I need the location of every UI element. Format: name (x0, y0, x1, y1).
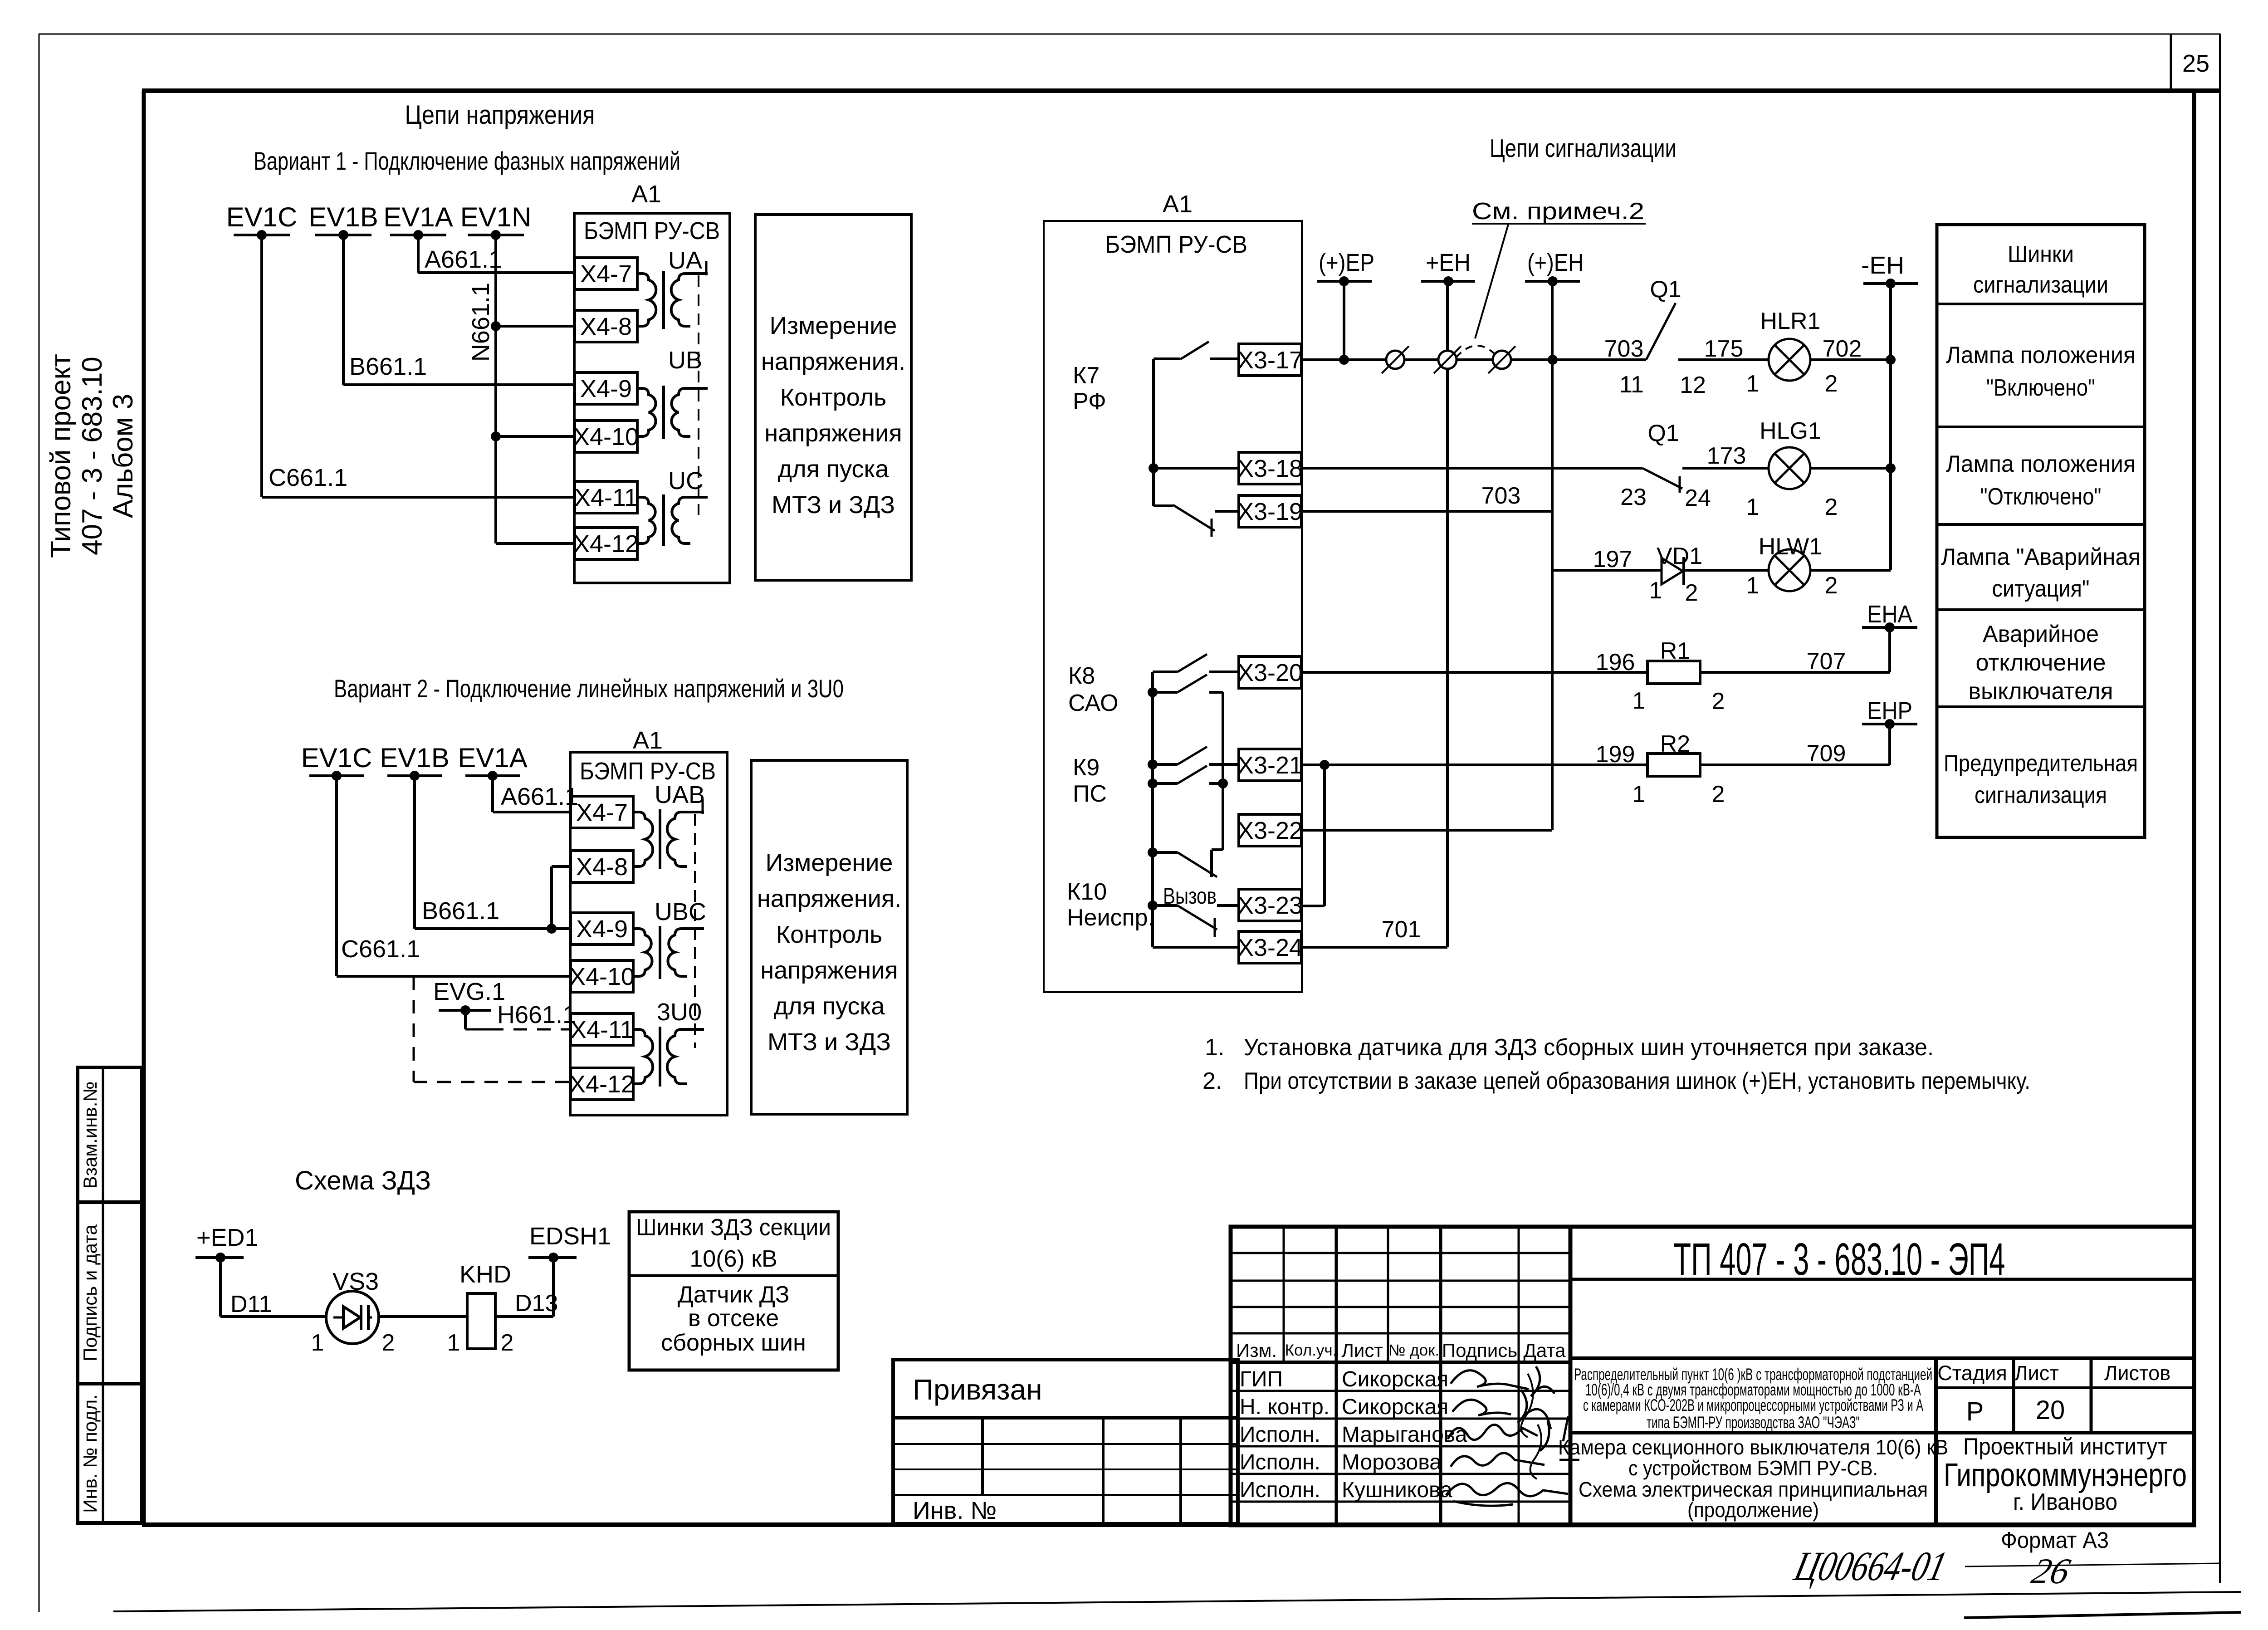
svg-text:HLR1: HLR1 (1760, 308, 1821, 334)
svg-text:2: 2 (1712, 688, 1725, 715)
svg-text:Х3-17: Х3-17 (1237, 347, 1303, 374)
svg-text:ТП 407 - 3 - 683.10 - ЭП4: ТП 407 - 3 - 683.10 - ЭП4 (1674, 1234, 2005, 1285)
svg-text:Сикорская: Сикорская (1342, 1367, 1448, 1391)
svg-text:Аварийное: Аварийное (1983, 621, 2099, 647)
svg-text:Гипрокоммунэнерго: Гипрокоммунэнерго (1944, 1457, 2187, 1493)
svg-text:типа БЭМП-РУ производства ЗАО: типа БЭМП-РУ производства ЗАО "ЧЭАЗ" (1647, 1413, 1860, 1432)
svg-text:UA: UA (668, 247, 702, 274)
svg-text:Х4-7: Х4-7 (580, 260, 632, 288)
svg-text:Х4-10: Х4-10 (569, 963, 635, 990)
svg-text:сборных шин: сборных шин (661, 1330, 806, 1356)
svg-text:в отсеке: в отсеке (688, 1305, 779, 1331)
svg-text:Шинки ЗДЗ секции: Шинки ЗДЗ секции (636, 1214, 831, 1241)
svg-text:сигнализации: сигнализации (1973, 272, 2108, 298)
svg-text:К8: К8 (1068, 663, 1095, 689)
svg-text:Х4-9: Х4-9 (580, 375, 632, 402)
svg-text:Подпись: Подпись (1442, 1340, 1517, 1361)
svg-text:Установка датчика для ЗДЗ сбор: Установка датчика для ЗДЗ сборных шин ут… (1244, 1034, 1934, 1061)
svg-text:+ED1: +ED1 (196, 1224, 259, 1251)
svg-text:Х3-23: Х3-23 (1237, 892, 1303, 919)
svg-text:Лампа "Аварийная: Лампа "Аварийная (1941, 544, 2141, 570)
svg-text:Кол.уч.: Кол.уч. (1285, 1341, 1337, 1359)
svg-text:Лист: Лист (2014, 1361, 2059, 1385)
svg-text:26: 26 (2028, 1551, 2074, 1591)
svg-text:для пуска: для пуска (774, 993, 885, 1020)
svg-text:Привязан: Привязан (913, 1373, 1042, 1406)
svg-text:1.: 1. (1205, 1034, 1224, 1061)
svg-text:Р: Р (1966, 1397, 1984, 1426)
svg-text:Схема ЗДЗ: Схема ЗДЗ (295, 1166, 431, 1195)
svg-text:2: 2 (1825, 573, 1838, 599)
svg-text:Н661.1: Н661.1 (497, 1001, 576, 1028)
svg-text:Н. контр.: Н. контр. (1240, 1395, 1330, 1419)
svg-text:отключение: отключение (1976, 650, 2106, 676)
svg-text:напряжения: напряжения (764, 420, 902, 447)
svg-text:Морозова: Морозова (1342, 1450, 1442, 1474)
svg-text:Х3-21: Х3-21 (1237, 752, 1303, 779)
svg-text:25: 25 (2182, 50, 2209, 77)
svg-text:Ц00664-01: Ц00664-01 (1789, 1543, 1951, 1589)
svg-text:ГИП: ГИП (1240, 1367, 1283, 1391)
svg-text:703: 703 (1481, 483, 1521, 509)
svg-text:Взам.инв.№: Взам.инв.№ (79, 1082, 101, 1189)
svg-text:Кушникова: Кушникова (1342, 1478, 1452, 1502)
svg-text:EV1A: EV1A (458, 743, 527, 773)
svg-text:2: 2 (382, 1330, 395, 1356)
svg-text:EV1C: EV1C (226, 202, 298, 232)
svg-text:К10: К10 (1067, 879, 1107, 905)
svg-text:1: 1 (1649, 578, 1662, 604)
svg-text:Цепи напряжения: Цепи напряжения (405, 100, 595, 130)
svg-text:Дата: Дата (1523, 1340, 1566, 1361)
svg-text:Х4-8: Х4-8 (576, 853, 628, 881)
svg-text:197: 197 (1593, 546, 1633, 573)
svg-text:выключателя: выключателя (1969, 678, 2113, 705)
svg-text:R1: R1 (1660, 638, 1690, 664)
svg-text:Инв. № подл.: Инв. № подл. (79, 1394, 101, 1513)
svg-text:2: 2 (1685, 580, 1698, 606)
svg-text:Сикорская: Сикорская (1342, 1395, 1448, 1419)
svg-text:N661.1: N661.1 (467, 283, 494, 362)
svg-text:БЭМП РУ-СВ: БЭМП РУ-СВ (584, 217, 720, 245)
svg-text:1: 1 (1746, 573, 1760, 599)
svg-text:EVG.1: EVG.1 (433, 978, 505, 1005)
svg-text:Исполн.: Исполн. (1240, 1450, 1320, 1474)
svg-text:МТЗ и ЗДЗ: МТЗ и ЗДЗ (772, 491, 895, 519)
svg-text:ПС: ПС (1073, 781, 1107, 807)
svg-text:С661.1: С661.1 (341, 935, 420, 963)
svg-text:Лампа положения: Лампа положения (1946, 342, 2136, 368)
svg-text:Проектный институт: Проектный институт (1963, 1434, 2167, 1460)
svg-text:Контроль: Контроль (776, 921, 883, 948)
svg-text:196: 196 (1596, 649, 1635, 675)
svg-text:A1: A1 (633, 727, 663, 754)
svg-text:К7: К7 (1073, 362, 1100, 389)
svg-text:707: 707 (1807, 648, 1846, 675)
svg-text:Х3-19: Х3-19 (1237, 498, 1303, 525)
svg-text:KHD: KHD (459, 1261, 511, 1288)
svg-text:Марыганова: Марыганова (1342, 1423, 1467, 1447)
svg-text:EDSH1: EDSH1 (529, 1223, 611, 1250)
svg-text:В661.1: В661.1 (422, 897, 499, 925)
svg-text:Х4-11: Х4-11 (574, 484, 638, 511)
svg-text:Х4-7: Х4-7 (576, 799, 628, 826)
svg-text:с камерами КСО-202В и микропро: с камерами КСО-202В и микропроцессорными… (1583, 1396, 1923, 1415)
svg-text:2: 2 (1825, 371, 1838, 397)
svg-text:№ док.: № док. (1388, 1341, 1439, 1359)
svg-text:Формат А3: Формат А3 (2001, 1527, 2109, 1553)
svg-text:Датчик ДЗ: Датчик ДЗ (678, 1282, 790, 1308)
svg-text:24: 24 (1685, 485, 1711, 511)
svg-text:Типовой проект: Типовой проект (45, 354, 77, 558)
svg-text:A1: A1 (631, 181, 661, 208)
svg-text:1: 1 (1746, 371, 1760, 397)
svg-text:"Включено": "Включено" (1986, 375, 2095, 401)
svg-text:(+)ЕН: (+)ЕН (1527, 249, 1584, 276)
svg-text:В661.1: В661.1 (349, 353, 427, 380)
svg-text:(продолжение): (продолжение) (1687, 1498, 1819, 1522)
svg-text:Х3-20: Х3-20 (1237, 659, 1303, 686)
svg-text:Х4-12: Х4-12 (569, 1071, 635, 1098)
svg-text:2.: 2. (1202, 1068, 1222, 1094)
svg-text:Вариант 1 - Подключение фазных: Вариант 1 - Подключение фазных напряжени… (254, 147, 680, 175)
svg-text:1: 1 (1746, 494, 1760, 520)
svg-text:Камера секционного выключателя: Камера секционного выключателя 10(6) кВ (1558, 1435, 1948, 1459)
svg-text:Х4-11: Х4-11 (570, 1016, 634, 1043)
svg-text:САО: САО (1068, 690, 1118, 716)
svg-text:МТЗ и ЗДЗ: МТЗ и ЗДЗ (767, 1028, 891, 1056)
svg-text:ЕНР: ЕНР (1867, 697, 1912, 724)
svg-text:+ЕН: +ЕН (1426, 249, 1471, 276)
svg-text:ситуация": ситуация" (1992, 576, 2090, 602)
svg-text:Х4-8: Х4-8 (580, 313, 632, 340)
svg-text:Цепи сигнализации: Цепи сигнализации (1490, 134, 1677, 163)
svg-text:Q1: Q1 (1650, 276, 1681, 303)
svg-text:При отсутствии в заказе цепей: При отсутствии в заказе цепей образовани… (1244, 1068, 2030, 1094)
svg-text:12: 12 (1680, 372, 1706, 398)
svg-text:Листов: Листов (2104, 1361, 2170, 1385)
svg-text:A1: A1 (1163, 191, 1193, 218)
svg-text:С661.1: С661.1 (269, 464, 347, 491)
svg-text:175: 175 (1704, 336, 1744, 362)
svg-text:БЭМП РУ-СВ: БЭМП РУ-СВ (580, 758, 716, 785)
svg-text:РФ: РФ (1073, 388, 1106, 415)
svg-text:ЕНА: ЕНА (1867, 601, 1912, 628)
svg-text:20: 20 (2036, 1395, 2065, 1425)
svg-text:VD1: VD1 (1657, 543, 1702, 569)
svg-text:напряжения.: напряжения. (761, 348, 905, 375)
svg-text:(+)ЕР: (+)ЕР (1319, 249, 1374, 276)
svg-text:Исполн.: Исполн. (1240, 1423, 1320, 1447)
svg-text:1: 1 (1633, 781, 1646, 808)
svg-text:EV1N: EV1N (460, 202, 532, 232)
svg-text:UB: UB (668, 347, 702, 374)
svg-text:Стадия: Стадия (1937, 1361, 2007, 1385)
svg-text:EV1C: EV1C (301, 743, 372, 773)
svg-text:EV1B: EV1B (308, 202, 378, 232)
svg-text:173: 173 (1707, 443, 1746, 469)
svg-text:2: 2 (1825, 494, 1838, 520)
svg-text:Лист: Лист (1341, 1340, 1383, 1361)
svg-text:Лампа положения: Лампа положения (1946, 451, 2136, 477)
svg-text:Неиспр.: Неиспр. (1067, 905, 1154, 931)
svg-text:Подпись и дата: Подпись и дата (79, 1224, 101, 1361)
svg-text:701: 701 (1382, 916, 1421, 943)
svg-text:2: 2 (501, 1330, 514, 1356)
svg-text:702: 702 (1823, 336, 1862, 362)
svg-text:с устройством БЭМП РУ-СВ.: с устройством БЭМП РУ-СВ. (1628, 1456, 1878, 1480)
svg-text:1: 1 (311, 1330, 324, 1356)
svg-text:UBC: UBC (655, 898, 706, 925)
svg-text:Контроль: Контроль (780, 384, 887, 411)
svg-text:для пуска: для пуска (778, 455, 890, 483)
svg-text:2: 2 (1712, 781, 1725, 808)
svg-text:1: 1 (1633, 688, 1646, 714)
svg-text:23: 23 (1620, 484, 1647, 510)
svg-text:Измерение: Измерение (770, 312, 897, 339)
svg-text:Х3-24: Х3-24 (1237, 934, 1303, 961)
svg-text:HLW1: HLW1 (1759, 534, 1823, 560)
svg-text:709: 709 (1807, 740, 1846, 767)
svg-text:Инв. №: Инв. № (913, 1497, 997, 1524)
svg-text:Альбом 3: Альбом 3 (108, 394, 139, 518)
svg-text:D13: D13 (515, 1290, 558, 1317)
svg-text:703: 703 (1604, 336, 1644, 362)
svg-text:D11: D11 (230, 1291, 272, 1317)
svg-text:VS3: VS3 (332, 1268, 379, 1295)
svg-text:Q1: Q1 (1647, 420, 1679, 446)
svg-text:11: 11 (1619, 372, 1644, 398)
svg-text:HLG1: HLG1 (1760, 418, 1821, 444)
svg-text:Х4-9: Х4-9 (576, 915, 628, 943)
svg-text:Х3-22: Х3-22 (1237, 817, 1303, 844)
svg-text:Предупредительная: Предупредительная (1944, 750, 2138, 777)
svg-text:Х3-18: Х3-18 (1237, 455, 1303, 482)
svg-text:Измерение: Измерение (766, 849, 893, 876)
svg-text:А661.1: А661.1 (425, 246, 502, 273)
svg-text:Исполн.: Исполн. (1240, 1478, 1320, 1502)
svg-text:Изм.: Изм. (1236, 1340, 1277, 1361)
svg-text:БЭМП РУ-СВ: БЭМП РУ-СВ (1105, 231, 1247, 258)
svg-text:1: 1 (447, 1330, 460, 1356)
svg-text:R2: R2 (1660, 731, 1690, 757)
svg-text:-ЕН: -ЕН (1861, 252, 1904, 279)
svg-text:EV1B: EV1B (380, 743, 449, 773)
svg-text:199: 199 (1596, 741, 1635, 768)
svg-text:Х4-10: Х4-10 (573, 423, 639, 450)
svg-text:Х4-12: Х4-12 (573, 530, 639, 558)
svg-text:См. примеч.2: См. примеч.2 (1472, 198, 1644, 225)
svg-text:UAB: UAB (655, 781, 705, 808)
svg-text:А661.1: А661.1 (501, 783, 578, 810)
svg-text:г. Иваново: г. Иваново (2013, 1489, 2117, 1515)
svg-text:сигнализация: сигнализация (1975, 782, 2107, 808)
svg-text:407 - 3 - 683.10: 407 - 3 - 683.10 (77, 357, 108, 555)
svg-text:EV1A: EV1A (383, 202, 453, 232)
svg-text:напряжения: напряжения (760, 957, 898, 984)
svg-text:Вариант 2 - Подключение линейн: Вариант 2 - Подключение линейных напряже… (334, 674, 844, 703)
svg-text:10(6) кВ: 10(6) кВ (689, 1246, 777, 1272)
svg-text:К9: К9 (1073, 754, 1100, 781)
svg-text:"Отключено": "Отключено" (1980, 484, 2102, 510)
svg-text:Шинки: Шинки (2008, 241, 2074, 268)
svg-text:напряжения.: напряжения. (757, 885, 901, 912)
